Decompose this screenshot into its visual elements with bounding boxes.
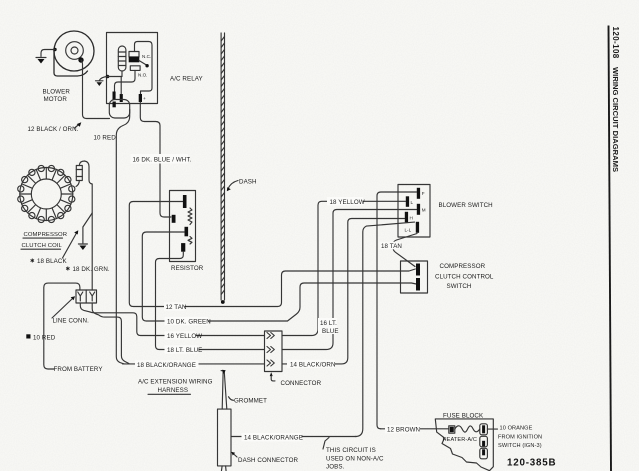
SECTION: bottom <box>218 370 557 471</box>
svg-text:M: M <box>422 208 426 213</box>
blower switch terminal M <box>417 204 420 215</box>
A/C relay box outline <box>107 33 158 104</box>
blower motor ground lead <box>41 48 57 57</box>
connector box <box>265 331 283 372</box>
svg-text:16 DK. BLUE / WHT.: 16 DK. BLUE / WHT. <box>133 157 192 164</box>
fuse block cavity 1 with terminal <box>480 424 488 435</box>
wire 12 BROWN riser from fuse block to blower switch F <box>377 192 417 429</box>
svg-text:10 DK. GREEN: 10 DK. GREEN <box>167 319 211 326</box>
connector contact chevrons row 1 <box>267 333 274 339</box>
wire from relay loop to resistor top terminal <box>129 202 415 307</box>
svg-text:MOTOR: MOTOR <box>44 96 68 103</box>
clutch coil connector component <box>76 166 82 187</box>
relay N.C. contact <box>129 52 151 63</box>
wire from line connector right cell joining harness <box>92 303 129 364</box>
label 18 BLACK with leader arrow <box>30 230 78 265</box>
svg-text:BLOWER: BLOWER <box>43 89 71 96</box>
relay terminal T4 <box>139 94 142 102</box>
connector contact chevrons row 3 <box>267 360 274 366</box>
ground symbol at clutch coil <box>78 244 87 250</box>
wire 12 BLACK/ORN from blower motor down <box>81 60 110 119</box>
svg-text:18 BLACK: 18 BLACK <box>37 258 67 265</box>
svg-text:10 RED: 10 RED <box>33 334 56 341</box>
svg-text:L-L: L-L <box>405 228 412 233</box>
label 14 BLACK/ORANGE <box>242 433 303 442</box>
label 10 ORANGE FROM IGNITION SWITCH (IGN-3) <box>498 425 542 449</box>
ground symbol at blower motor <box>36 58 46 64</box>
relay terminal T3 <box>113 102 116 108</box>
svg-text:CONNECTOR: CONNECTOR <box>281 380 322 387</box>
label 14 BLACK/ORN <box>287 360 336 369</box>
connector contact chevrons row 2 <box>267 347 274 353</box>
label DASH with leader <box>227 179 257 192</box>
svg-text:RESISTOR: RESISTOR <box>171 265 204 272</box>
svg-text:18 YELLOW: 18 YELLOW <box>330 199 365 206</box>
svg-text:DASH: DASH <box>239 179 257 186</box>
SECTION: relay <box>94 33 416 364</box>
blower switch terminal F <box>417 188 420 199</box>
control switch terminal top <box>416 264 420 276</box>
relay terminal T2 stem <box>120 77 122 95</box>
label 16 DK. BLUE / WHT. <box>131 154 192 164</box>
label A/C EXTENSION WIRING HARNESS <box>138 379 213 395</box>
relay coil feed wire <box>108 76 123 78</box>
fuse wire squiggle <box>455 426 480 432</box>
resistor element zigzag lower <box>188 237 192 245</box>
wire 18 YELLOW from connector to blower switch L <box>282 201 406 335</box>
label CONNECTOR with leader <box>270 372 322 387</box>
svg-text:SWITCH (IGN-3): SWITCH (IGN-3) <box>498 443 542 449</box>
svg-text:L: L <box>411 200 414 205</box>
fuse block cavity 2 with terminal <box>480 436 488 447</box>
blower switch terminal L-L <box>416 222 419 233</box>
svg-text:10 ORANGE: 10 ORANGE <box>500 425 533 431</box>
wire 12 TAN label <box>164 302 187 311</box>
dash panel hatched line <box>221 33 225 304</box>
relay terminal T2 <box>120 94 123 102</box>
relay terminal T1 <box>113 92 116 100</box>
wire out to ignition <box>487 428 497 430</box>
label 16 YELLOW <box>165 331 203 340</box>
ground branch from coil wire <box>83 213 92 243</box>
label COMPRESSOR CLUTCH CONTROL SWITCH <box>435 263 494 290</box>
resistor element zigzag upper <box>188 208 192 225</box>
label GROMMET with tick <box>229 397 268 405</box>
dash connector body <box>218 409 232 466</box>
label DASH CONNECTOR with leader <box>231 452 298 464</box>
wire 14 BLACK/ORANGE from dash connector <box>231 436 357 438</box>
svg-text:14 BLACK/ORANGE: 14 BLACK/ORANGE <box>244 435 303 442</box>
svg-text:SWITCH: SWITCH <box>447 283 472 290</box>
compressor clutch control switch box <box>401 261 428 293</box>
svg-text:N.O.: N.O. <box>138 73 147 78</box>
svg-text:18 TAN: 18 TAN <box>381 243 402 250</box>
wire 16 YELLOW from resistor bottom to connector <box>156 252 265 350</box>
svg-text:FROM IGNITION: FROM IGNITION <box>498 434 542 440</box>
svg-text:✱: ✱ <box>30 258 35 265</box>
svg-text:+: + <box>143 96 146 101</box>
wire 14 BLACK/ORN from connector to blower switch H <box>282 219 405 364</box>
svg-text:WIRING CIRCUIT DIAGRAMS: WIRING CIRCUIT DIAGRAMS <box>611 67 620 172</box>
resistor terminal mid-right <box>185 227 189 237</box>
fuse block cavity 3 with terminal <box>480 448 488 459</box>
svg-text:18 LT. BLUE: 18 LT. BLUE <box>167 347 202 354</box>
relay bottom junction loop <box>109 100 129 119</box>
resistor terminal mid-left <box>172 215 176 223</box>
svg-text:16 YELLOW: 16 YELLOW <box>167 333 202 340</box>
svg-text:USED ON NON-A/C: USED ON NON-A/C <box>326 455 384 462</box>
page edge rule <box>609 26 612 471</box>
svg-text:120-385B: 120-385B <box>507 457 556 468</box>
compressor clutch coil (toroid) <box>18 165 75 222</box>
relay junction dot on left edge <box>106 75 110 79</box>
label 10 DK. GREEN <box>165 317 211 326</box>
svg-text:HARNESS: HARNESS <box>158 387 189 394</box>
relay contact arm and pivot dot <box>139 61 149 68</box>
svg-text:JOBS.: JOBS. <box>326 464 345 471</box>
blower switch box <box>398 185 430 238</box>
resistor box <box>170 191 196 262</box>
wire 10 DK GREEN from resistor to control switch <box>142 232 416 321</box>
svg-text:CLUTCH CONTROL: CLUTCH CONTROL <box>435 274 494 281</box>
wire from relay loop to 12 TAN bus and on to control switch <box>116 110 129 364</box>
blower switch terminal H <box>405 212 408 223</box>
label 18 BLACK/ORANGE <box>135 360 199 369</box>
SECTION: left components <box>18 31 264 373</box>
svg-text:CLUTCH COIL: CLUTCH COIL <box>22 243 63 249</box>
svg-text:THIS CIRCUIT IS: THIS CIRCUIT IS <box>326 447 376 454</box>
wire 18 BLACK/ORANGE from line connector left cell <box>80 303 264 336</box>
wire from connector to blower switch M <box>282 210 417 350</box>
svg-text:GROMMET: GROMMET <box>234 398 267 405</box>
label 12 BLACK / ORN. with arrow <box>28 122 82 133</box>
ground lead at relay <box>99 77 107 81</box>
label 18 TAN <box>380 242 403 251</box>
relay wire from N.O. to terminal T1 <box>115 70 136 91</box>
svg-text:FROM BATTERY: FROM BATTERY <box>54 366 103 373</box>
svg-text:✱: ✱ <box>66 266 71 273</box>
svg-text:COMPRESSOR: COMPRESSOR <box>24 232 68 238</box>
svg-text:F: F <box>422 191 425 196</box>
heater-A/C fuse <box>449 426 455 433</box>
SECTION: right <box>282 185 494 437</box>
label 18 LT. BLUE <box>165 345 203 354</box>
resistor terminal bottom <box>181 243 185 252</box>
label 18 DK. GRN. <box>66 266 110 274</box>
svg-text:BLUE: BLUE <box>322 328 339 335</box>
svg-text:COMPRESSOR: COMPRESSOR <box>440 263 486 270</box>
svg-text:12 BLACK / ORN.: 12 BLACK / ORN. <box>28 126 79 133</box>
SECTION: buses <box>123 33 417 394</box>
ground symbol at relay <box>96 81 104 86</box>
svg-text:A/C RELAY: A/C RELAY <box>170 76 203 83</box>
svg-text:16 LT.: 16 LT. <box>320 320 337 327</box>
wire 18 TAN from L-L to control switch <box>393 234 417 267</box>
dash connector bottom stub <box>221 466 226 471</box>
fuse block outline with torn edge <box>435 419 493 471</box>
SECTION: margin <box>609 26 620 471</box>
wire 18 DK GRN from coil connector to line connector <box>79 161 92 290</box>
label 18 YELLOW <box>327 197 365 206</box>
svg-text:10 RED: 10 RED <box>94 135 117 142</box>
line connector box <box>76 290 97 303</box>
svg-text:N.C.: N.C. <box>142 54 151 59</box>
label BLOWER MOTOR <box>43 89 71 104</box>
blower switch terminal L <box>406 196 409 207</box>
svg-text:H: H <box>410 215 413 220</box>
svg-text:18 BLACK/ORANGE: 18 BLACK/ORANGE <box>137 362 196 369</box>
svg-text:18 DK. GRN.: 18 DK. GRN. <box>73 266 110 273</box>
svg-text:HEATER-A/C: HEATER-A/C <box>443 437 477 443</box>
svg-text:A/C EXTENSION WIRING: A/C EXTENSION WIRING <box>138 379 213 386</box>
svg-text:LINE CONN.: LINE CONN. <box>53 318 90 325</box>
wire 14 BLACK/ORANGE riser from dash connector to blower switch L-L <box>355 222 415 436</box>
svg-text:120-108: 120-108 <box>611 27 620 59</box>
blower motor B1 scroll housing <box>54 31 94 76</box>
note THIS CIRCUIT IS USED ON NON-A/C JOBS with leader <box>323 438 384 471</box>
wire 18 BLACK/ORANGE bus to connector <box>123 363 265 365</box>
wire from battery to line connector <box>44 283 80 369</box>
label LINE CONN. with leader arrow <box>52 296 89 324</box>
relay coil <box>118 46 126 77</box>
wire 12 BROWN to fuse block <box>381 428 449 430</box>
label 10 RED with square bullet <box>26 334 55 341</box>
label COMPRESSOR CLUTCH COIL <box>21 232 67 249</box>
resistor terminal top <box>183 195 187 208</box>
svg-text:BLOWER SWITCH: BLOWER SWITCH <box>439 202 493 209</box>
relay internal wire from N.C. top <box>135 42 153 95</box>
relay N.O. contact <box>130 66 147 78</box>
svg-text:DASH CONNECTOR: DASH CONNECTOR <box>238 457 299 464</box>
svg-text:12 BROWN: 12 BROWN <box>387 427 420 434</box>
label 12 BROWN <box>385 425 420 434</box>
blower motor terminal dot <box>78 57 83 62</box>
wire 16 DK BLUE/WHT from relay T4 to resistor <box>140 102 171 217</box>
svg-text:14 BLACK/ORN: 14 BLACK/ORN <box>290 362 336 369</box>
svg-text:FUSE BLOCK: FUSE BLOCK <box>443 412 484 419</box>
control switch terminal bottom <box>416 278 420 291</box>
harness wires from connector down through grommet <box>221 370 227 409</box>
label 16 LT. BLUE two lines <box>318 318 339 335</box>
svg-text:12 TAN: 12 TAN <box>166 304 187 311</box>
